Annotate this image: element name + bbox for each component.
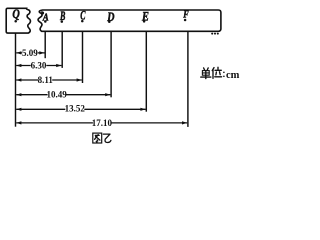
svg-text:17.10: 17.10 bbox=[92, 118, 113, 128]
paper tape right fragment (with A-F) bbox=[38, 10, 221, 31]
extension line from E bbox=[145, 31, 147, 111]
extension line from F bbox=[187, 31, 189, 127]
extension line from Q bbox=[15, 33, 17, 127]
extension line from C bbox=[82, 31, 84, 83]
ellipsis dots after tape right end bbox=[211, 33, 213, 35]
extension line from B bbox=[61, 31, 63, 68]
paper tape left fragment (with Q) bbox=[6, 8, 30, 33]
svg-text:5.09: 5.09 bbox=[22, 48, 38, 58]
svg-text:cm: cm bbox=[226, 70, 240, 81]
point D dot bbox=[108, 21, 111, 24]
extension line from D bbox=[110, 31, 112, 97]
svg-text:6.30: 6.30 bbox=[31, 61, 47, 71]
dimension line Q-B (6.30) bbox=[16, 61, 61, 71]
caption: 图 (tu) bbox=[93, 133, 102, 143]
point B dot bbox=[61, 20, 64, 23]
point C dot bbox=[81, 20, 84, 23]
torn-edge curl on right fragment bbox=[41, 11, 44, 14]
unit label: 单 (dan) bbox=[201, 68, 211, 79]
svg-text:8.11: 8.11 bbox=[38, 75, 54, 85]
svg-text:10.49: 10.49 bbox=[46, 90, 67, 100]
extension line from A bbox=[44, 31, 46, 58]
dimension line Q-A (5.09) bbox=[16, 48, 44, 58]
dimension line Q-D (10.49) bbox=[16, 90, 110, 100]
unit label: colon bbox=[223, 72, 225, 74]
point F dot bbox=[184, 19, 187, 22]
point Q dot bbox=[14, 20, 17, 23]
point E dot bbox=[143, 20, 146, 23]
dimension line Q-C (8.11) bbox=[16, 75, 82, 85]
dimension line Q-E (13.52) bbox=[16, 103, 145, 113]
svg-text:Q: Q bbox=[12, 7, 20, 21]
svg-text:D: D bbox=[106, 10, 115, 25]
unit label: 位 (wei) bbox=[212, 67, 221, 78]
svg-text:13.52: 13.52 bbox=[65, 103, 86, 113]
caption: 乙 (yi) bbox=[103, 134, 111, 142]
point A dot bbox=[44, 20, 47, 23]
dimension line Q-F (17.10) bbox=[16, 118, 187, 128]
